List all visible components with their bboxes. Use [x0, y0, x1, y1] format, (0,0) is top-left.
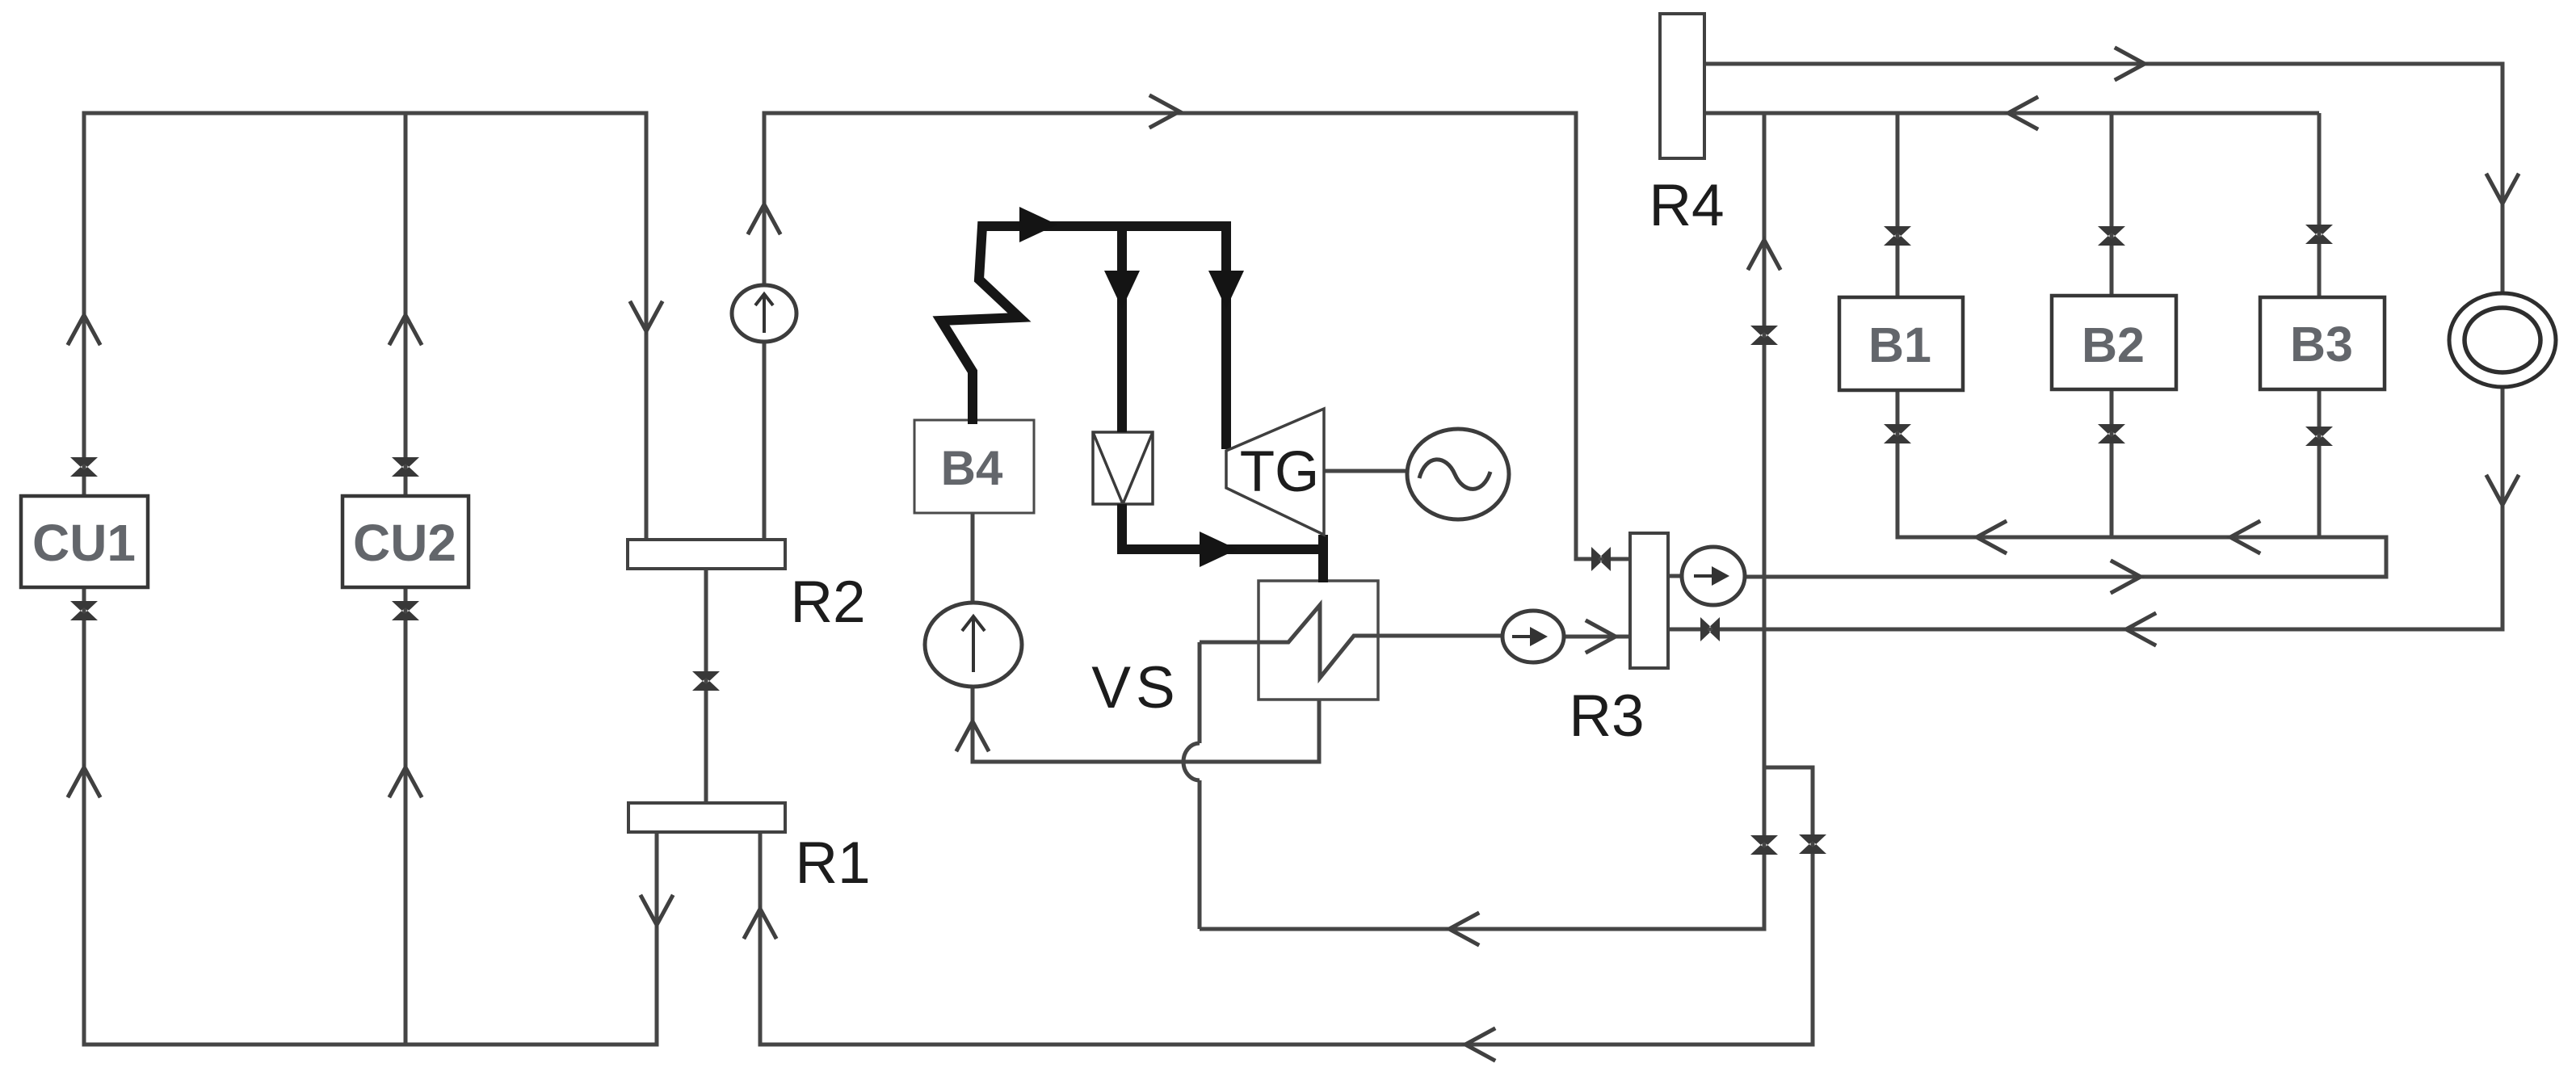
- svg-text:B2: B2: [2082, 317, 2145, 372]
- svg-text:CU2: CU2: [353, 514, 456, 572]
- svg-text:B4: B4: [941, 441, 1003, 495]
- svg-text:R1: R1: [795, 830, 870, 896]
- svg-text:CU1: CU1: [32, 514, 136, 572]
- svg-text:R4: R4: [1649, 173, 1724, 238]
- svg-text:VS: VS: [1091, 655, 1179, 721]
- svg-text:TG: TG: [1240, 440, 1320, 504]
- svg-text:R2: R2: [790, 570, 865, 635]
- svg-text:B3: B3: [2290, 317, 2353, 372]
- svg-text:R3: R3: [1569, 683, 1644, 749]
- svg-text:B1: B1: [1868, 317, 1931, 372]
